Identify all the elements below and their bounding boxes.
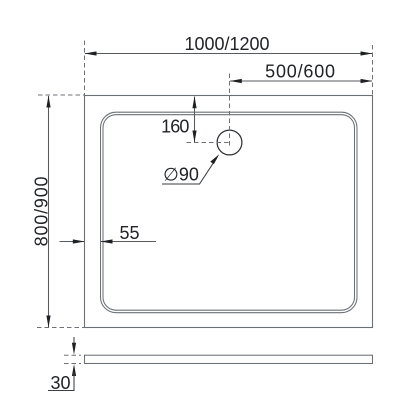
dimension 800/900 bottom arrow	[46, 316, 50, 328]
dimension 800/900 top arrow	[46, 96, 50, 108]
svg-text:55: 55	[119, 223, 139, 243]
dimension 30 lower arrow	[72, 364, 76, 376]
extension line top-left	[84, 41, 86, 96]
drain circle	[217, 130, 242, 155]
extension line left-bottom	[37, 327, 85, 329]
dimension 30 upper arrow line	[73, 337, 75, 345]
dimension 55 right line	[101, 241, 157, 243]
dimension 30 shelf	[48, 390, 75, 392]
dimension 160 line	[194, 97, 196, 143]
dimension 30 extension tick bottom	[64, 363, 81, 365]
dimension 30 upper arrow	[72, 343, 76, 355]
dimension 1000/1200 left arrow	[85, 51, 97, 55]
tray inner rim inner line	[103, 115, 355, 311]
dimension 55 left arrow	[73, 239, 85, 243]
dimension 160 top arrow	[192, 96, 196, 108]
dimension 55 left line	[60, 241, 85, 243]
svg-text:∅90: ∅90	[163, 165, 199, 185]
svg-text:1000/1200: 1000/1200	[184, 34, 269, 54]
dimension 1000/1200 right arrow	[361, 51, 373, 55]
dimension 500/600 line	[230, 80, 372, 82]
dimension 160 bottom arrow	[192, 131, 196, 143]
side view slab	[85, 355, 373, 363]
svg-text:500/600: 500/600	[265, 62, 336, 82]
dimension 30 extension tick top	[64, 354, 81, 356]
svg-text:30: 30	[50, 373, 70, 393]
dimension 800/900 line	[48, 96, 50, 328]
svg-text:160: 160	[161, 117, 189, 137]
dimension 500/600 left arrow	[230, 79, 242, 83]
dimension 55 right arrow	[101, 239, 113, 243]
tray outer rectangle	[85, 96, 373, 328]
tray inner rim outer line	[101, 112, 358, 313]
leader diameter 90 diagonal	[200, 158, 217, 184]
centerline vertical through drain	[229, 74, 231, 147]
leader diameter 90 arrow	[210, 154, 219, 164]
svg-text:800/900: 800/900	[32, 176, 52, 247]
centerline horizontal through drain	[187, 142, 232, 144]
extension line left-top	[38, 94, 85, 96]
dimension 30 lower arrow line	[73, 372, 75, 391]
extension line top-right	[372, 45, 374, 95]
leader diameter 90 shelf	[162, 183, 200, 185]
dimension 500/600 right arrow	[361, 79, 373, 83]
dimension 1000/1200 line	[85, 53, 372, 55]
